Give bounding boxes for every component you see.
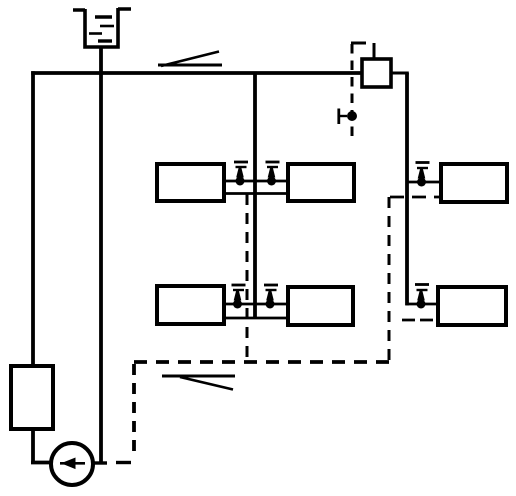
wire: return drop (dashed) [132, 364, 136, 458]
wire: expansion tank riser [99, 47, 103, 463]
valve V6 [415, 285, 429, 309]
slope mark on return main [162, 376, 235, 390]
wire: R1-R2 supply connection [224, 180, 288, 183]
wire: R5 return connection (dashed) [390, 196, 441, 199]
wire: pump outlet [93, 461, 108, 464]
wire: St2 to R5 supply [407, 181, 441, 184]
valve V5 [416, 163, 430, 187]
radiator R2 [288, 164, 354, 201]
valve V7 (vent valve) [339, 109, 357, 125]
slope mark on supply main [158, 52, 222, 67]
air collector U1 [362, 59, 391, 87]
wire: return riser St1 (dashed) [246, 194, 249, 362]
wire: supply main [31, 71, 362, 75]
valve V1 [234, 162, 248, 186]
wire: return to pump (dashed) [107, 461, 131, 464]
wire: R1-R2 return connection [224, 192, 288, 195]
wire: vent line horizontal (dashed) [351, 42, 374, 45]
wire: boiler outlet [31, 429, 51, 463]
radiator R3 [157, 286, 224, 324]
radiator R1 [157, 164, 224, 201]
pump P1 [51, 443, 93, 485]
valve V2 [266, 162, 280, 186]
wire: return riser St2 (dashed) [388, 197, 391, 360]
wire: vent line vertical (dashed) [351, 44, 354, 140]
boiler [11, 366, 53, 429]
expansion tank [73, 8, 131, 47]
wire: St2 to R6 supply [406, 303, 438, 306]
radiator R4 [288, 287, 353, 325]
wire: R6 return connection (dashed) [402, 319, 438, 322]
wire: R3-R4 supply connection [224, 303, 288, 306]
valve V3 [232, 285, 246, 309]
wire: air collector to riser St2 [391, 72, 409, 75]
wire: supply riser St2 [405, 73, 409, 305]
valve V4 [264, 285, 278, 309]
wire: return main (dashed) [134, 360, 390, 364]
wire: R3-R4 return connection [224, 317, 288, 320]
radiator R5 [441, 164, 507, 202]
radiator R6 [438, 287, 506, 325]
wire: supply riser St1 [253, 73, 257, 318]
wire: left drop to boiler [31, 71, 35, 367]
wire: vent stub above air collector [373, 43, 376, 59]
